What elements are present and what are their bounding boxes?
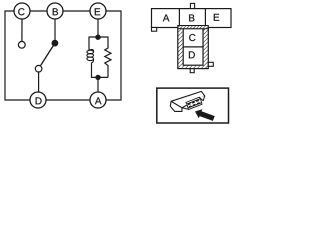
pin C label	[189, 34, 195, 41]
relay socket pin holes row 1	[188, 100, 199, 106]
arrow pointing at relay	[195, 109, 215, 121]
switch contact (C side, open)	[18, 41, 25, 48]
row hatched band under B	[178, 26, 209, 29]
terminal E	[90, 3, 106, 19]
wire junction to A	[97, 77, 99, 92]
switch pivot junction	[52, 40, 59, 47]
relay coil	[87, 49, 94, 62]
pin B label	[189, 15, 194, 22]
right side tab	[208, 62, 213, 66]
wire E to top junction	[97, 19, 99, 37]
relay pictorial: socket rim top	[186, 97, 201, 104]
relay pictorial: socket lower lip	[188, 103, 202, 110]
relay pictorial: top face	[171, 91, 205, 107]
switch arm	[41, 43, 55, 65]
switch contact (D side)	[35, 65, 42, 72]
index tab under pin A box	[152, 28, 157, 32]
relay pictorial: left/front lower faces	[170, 101, 182, 111]
relay socket pin holes row 2	[189, 102, 200, 108]
wire contact to D	[38, 72, 40, 92]
terminal A	[90, 92, 106, 108]
wire C to D (left rail)	[5, 11, 30, 100]
terminal C	[14, 3, 30, 19]
wire coil top lead	[88, 37, 90, 51]
cavity divider	[183, 46, 203, 48]
relay pictorial: socket face	[187, 99, 202, 108]
pin E label	[214, 14, 219, 21]
resistor	[105, 37, 111, 78]
wire C-B	[30, 10, 47, 12]
row divider B|E	[204, 9, 206, 28]
top tab	[190, 3, 194, 8]
wire C to open contact	[21, 19, 23, 41]
location panel frame	[157, 88, 229, 123]
relay pictorial: right end face	[200, 96, 205, 101]
terminal B	[47, 3, 63, 19]
connector cavity box	[183, 29, 203, 66]
node bottom junction	[95, 75, 100, 80]
wire B-E	[63, 10, 90, 12]
wire E to A (right rail)	[106, 11, 121, 100]
connector body walls (hatched)	[178, 26, 209, 69]
relay pictorial: front bottom edge to socket	[182, 108, 189, 109]
node top junction	[95, 35, 100, 40]
wire D-A	[46, 99, 90, 101]
terminal row box A/B/E	[152, 9, 232, 28]
wire B to switch pivot	[54, 19, 56, 42]
wire top rail	[89, 36, 108, 38]
bottom tab	[190, 69, 194, 73]
wire coil bottom lead	[91, 63, 93, 78]
wire bottom rail	[91, 76, 108, 78]
pin A label	[163, 14, 170, 21]
row divider A|B	[178, 9, 180, 28]
terminal D	[30, 92, 46, 108]
pin D label	[189, 51, 195, 58]
